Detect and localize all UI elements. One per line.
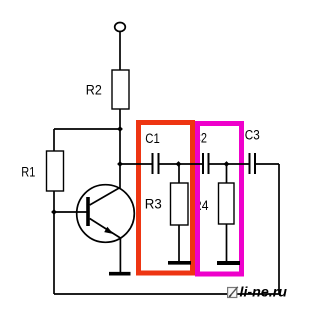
svg-text:R2: R2 [86,83,102,98]
svg-text:R3: R3 [145,196,162,211]
svg-text:C1: C1 [145,131,160,146]
svg-text:li-ne.ru: li-ne.ru [240,285,288,300]
svg-text:R1: R1 [21,164,35,179]
svg-text:C3: C3 [245,128,260,143]
